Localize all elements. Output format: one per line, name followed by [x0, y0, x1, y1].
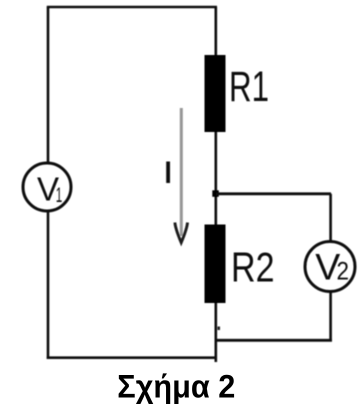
wire top (node A to node B) — [47, 6, 217, 9]
wire bottom — [47, 356, 217, 359]
wire left lower — [47, 210, 50, 359]
svg-text:2: 2 — [337, 258, 350, 286]
svg-text:Σχήμα 2: Σχήμα 2 — [117, 369, 235, 405]
wire middle (R1 to R2) — [215, 132, 218, 226]
svg-text:1: 1 — [56, 184, 63, 207]
wire branch right lower — [329, 291, 332, 342]
wire right lower (R2 to bottom node) — [215, 303, 218, 362]
label V2 — [315, 246, 349, 288]
wire branch right upper — [329, 194, 332, 242]
wire left upper — [47, 7, 50, 164]
svg-text:R2: R2 — [231, 243, 275, 290]
current arrow I head — [175, 223, 188, 243]
wire branch bottom (V2 return) — [216, 339, 332, 342]
label V1 — [37, 171, 62, 208]
voltmeter V1 — [23, 163, 71, 211]
voltmeter V2 — [305, 242, 355, 292]
svg-text:R1: R1 — [229, 64, 269, 111]
resistor R1 — [205, 55, 226, 132]
current arrow I shaft — [180, 108, 183, 236]
wire branch top (junction to V2) — [216, 192, 331, 195]
node junction (R1-R2 tap) — [212, 190, 219, 197]
resistor R2 — [205, 225, 226, 304]
label I (current) — [166, 162, 170, 184]
node tick (bottom branch junction) — [218, 327, 221, 331]
wire right upper (top node to R1) — [215, 7, 218, 56]
